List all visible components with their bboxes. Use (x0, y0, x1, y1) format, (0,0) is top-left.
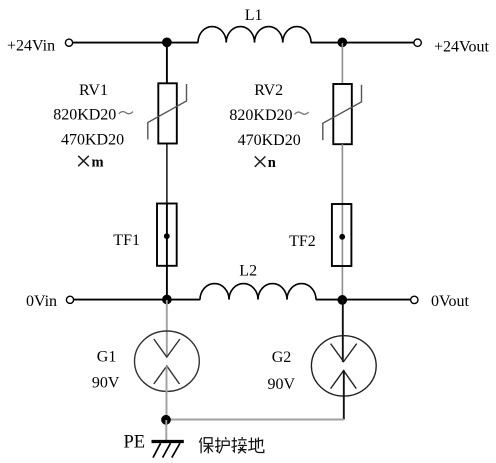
char 接 (231, 437, 247, 454)
gas discharge tube G2 (311, 336, 376, 396)
wire RV1 to TF1 (166, 144, 168, 205)
wire G1 to PE node (166, 366, 168, 420)
svg-text:TF2: TF2 (289, 233, 316, 250)
wire bottom-left junction to G1 (166, 300, 168, 358)
terminal +24Vout (414, 39, 421, 46)
char 护 (215, 437, 230, 453)
value label 820KD20~ (RV2) (229, 107, 308, 124)
svg-text:G2: G2 (272, 349, 292, 366)
node top-right junction (337, 37, 347, 47)
svg-text:470KD20: 470KD20 (61, 132, 124, 149)
terminal +24Vin (65, 39, 72, 46)
inductor L2 (200, 284, 316, 300)
svg-text:90V: 90V (268, 376, 296, 393)
terminal 0Vout (411, 296, 418, 303)
node top-left junction (162, 37, 172, 47)
value label ×n (RV2) (255, 155, 276, 171)
varistor RV2 (323, 84, 362, 144)
svg-text:470KD20: 470KD20 (238, 132, 301, 149)
svg-text:TF1: TF1 (113, 232, 140, 249)
svg-text:G1: G1 (97, 349, 117, 366)
node bottom-left junction (162, 295, 172, 305)
wire bottom-right junction to G2 (342, 300, 344, 362)
svg-text:+24Vin: +24Vin (7, 38, 55, 55)
label 保护接地 (protective earthing), hand-drawn glyphs (199, 437, 264, 454)
wire PE node to ground symbol (165, 420, 167, 441)
svg-text:0Vout: 0Vout (431, 293, 469, 310)
svg-text:820KD20: 820KD20 (229, 107, 292, 124)
node PE junction (161, 415, 171, 425)
svg-text:L2: L2 (239, 262, 257, 279)
thermal fuse TF2 (332, 204, 352, 300)
terminal 0Vin (66, 296, 73, 303)
thermal fuse TF1 (157, 204, 177, 300)
svg-text:PE: PE (124, 432, 146, 452)
wire top junction to RV2 (341, 43, 343, 85)
svg-text:820KD20: 820KD20 (53, 106, 116, 123)
svg-text:90V: 90V (92, 375, 120, 392)
char 保 (199, 438, 213, 454)
svg-text:RV2: RV2 (254, 82, 283, 99)
wire bottom rail left (74, 299, 200, 301)
svg-text:+24Vout: +24Vout (434, 38, 490, 55)
svg-text:RV1: RV1 (79, 82, 108, 99)
inductor L1 (198, 27, 311, 43)
svg-text:0Vin: 0Vin (26, 293, 57, 310)
char 地 (248, 437, 264, 452)
svg-text:L1: L1 (245, 7, 263, 24)
wire top junction to RV1 (166, 43, 168, 84)
value label 820KD20~ (RV1) (53, 106, 133, 123)
gas discharge tube G1 (135, 331, 200, 391)
wire top rail left (73, 42, 198, 44)
node bottom-right junction (337, 295, 347, 305)
value label ×m (RV1) (78, 154, 103, 170)
wire G2 to ground bus (343, 370, 345, 419)
wire ground bus horizontal (166, 419, 344, 421)
svg-text:n: n (268, 155, 276, 171)
wire bottom rail right (316, 299, 411, 301)
wire top rail right (311, 42, 414, 44)
svg-text:m: m (92, 154, 104, 170)
ground (protective earth) (152, 442, 184, 458)
varistor RV1 (148, 83, 187, 143)
wire RV2 to TF2 (341, 144, 343, 204)
